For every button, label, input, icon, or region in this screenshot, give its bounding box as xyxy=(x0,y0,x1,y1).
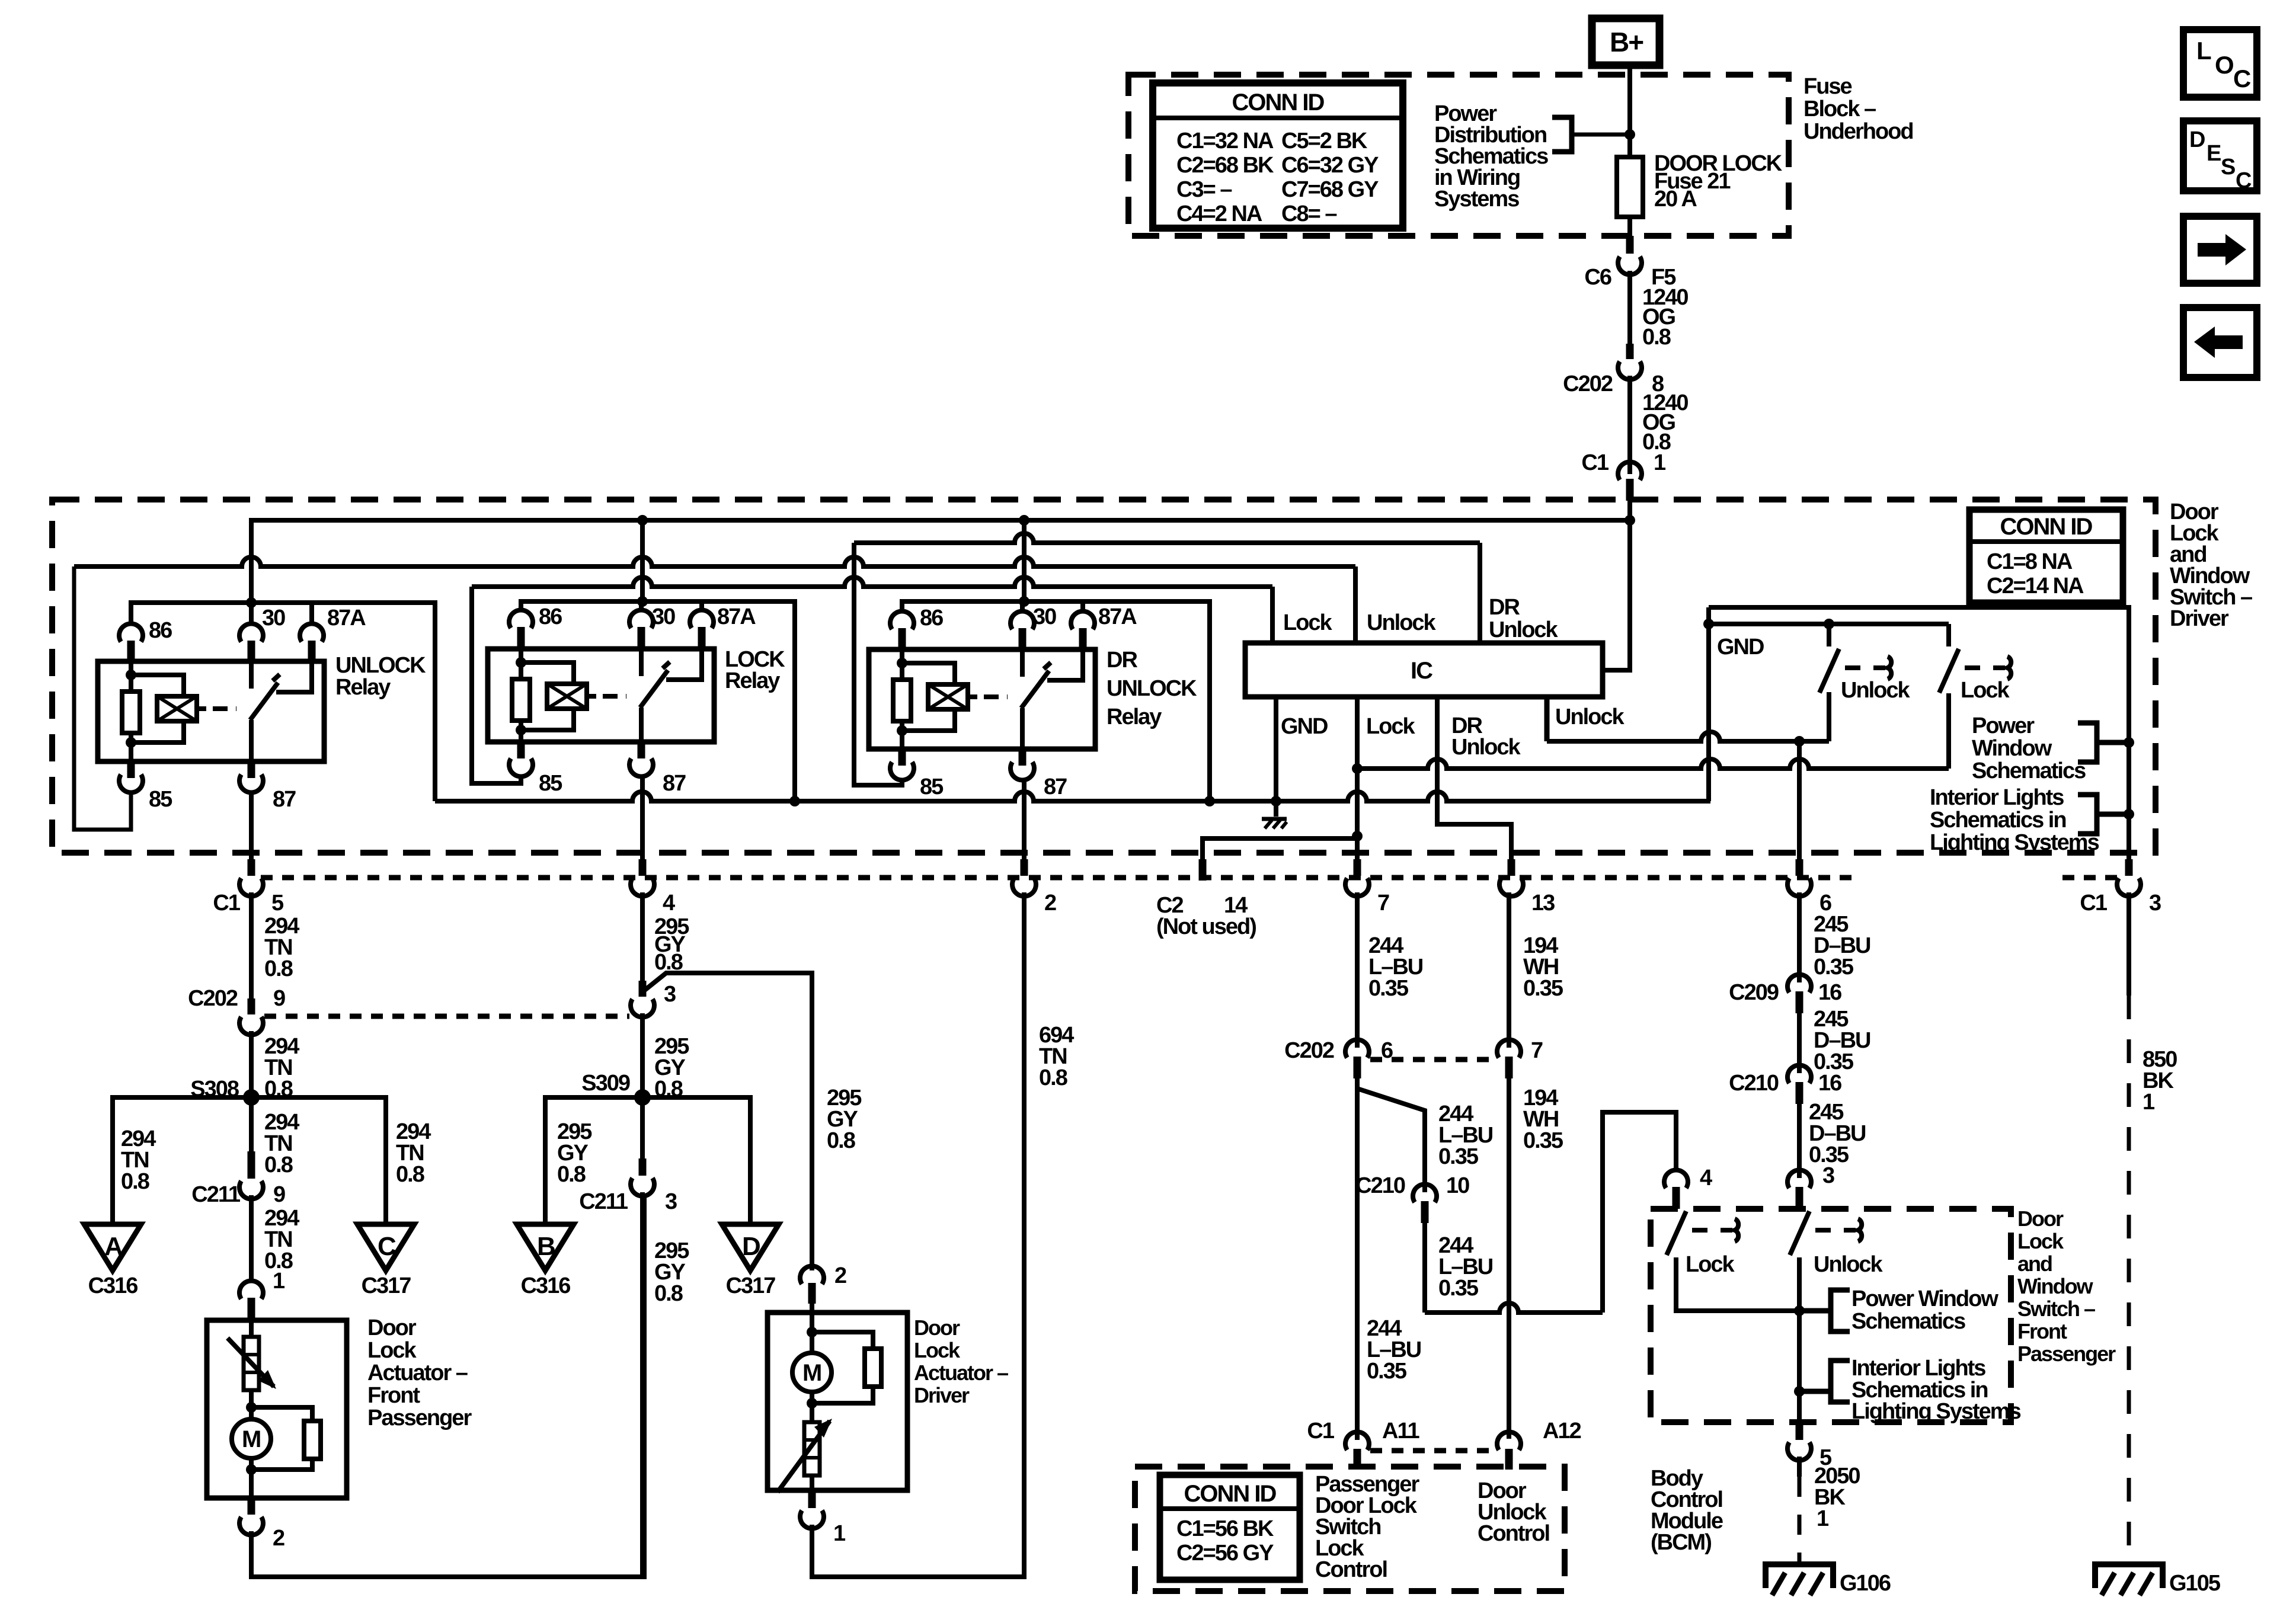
wire unlock switch drop xyxy=(1827,693,1831,741)
svg-text:Window: Window xyxy=(1972,736,2052,761)
battery feed B+ box xyxy=(1592,18,1659,65)
door lock and window switch driver dashed box xyxy=(52,500,2156,853)
svg-text:DR: DR xyxy=(1107,648,1137,673)
actuator junction 2 xyxy=(246,1464,257,1475)
wire S308 to C211 xyxy=(249,1097,254,1151)
svg-text:Driver: Driver xyxy=(914,1383,970,1407)
svg-text:7: 7 xyxy=(1531,1038,1543,1063)
svg-text:G105: G105 xyxy=(2169,1571,2221,1596)
svg-text:0.35: 0.35 xyxy=(1814,955,1854,980)
svg-text:C3= –: C3= – xyxy=(1176,177,1232,202)
svg-text:9: 9 xyxy=(273,1182,285,1207)
bracket interior lights driver xyxy=(2078,795,2097,834)
wire IC gnd pin xyxy=(1274,697,1278,817)
connector BCM A11 xyxy=(1345,1432,1369,1450)
svg-text:and: and xyxy=(2017,1251,2052,1276)
relay UNLOCK pin 30 connector xyxy=(239,623,263,642)
svg-text:C1=56 BK: C1=56 BK xyxy=(1176,1516,1274,1541)
connector passenger switch pin 4 xyxy=(1664,1170,1688,1188)
connector actuator passenger pin 2 xyxy=(248,1498,255,1515)
svg-text:5: 5 xyxy=(271,891,284,916)
actuator variable resistor arrow xyxy=(778,1421,830,1492)
svg-text:O: O xyxy=(2215,51,2233,79)
connector C202 pin 6 xyxy=(1345,1039,1369,1058)
svg-text:Power Window: Power Window xyxy=(1851,1286,1998,1311)
wire gnd vertical xyxy=(1706,607,1711,801)
svg-text:Lock: Lock xyxy=(1366,714,1416,739)
svg-text:A12: A12 xyxy=(1543,1419,1581,1443)
wire 245 D-BU pin 6 down xyxy=(1797,892,1802,982)
svg-text:3: 3 xyxy=(1822,1163,1834,1188)
svg-text:1: 1 xyxy=(273,1269,285,1294)
svg-text:M: M xyxy=(802,1360,821,1386)
wire 294 TN pin5 to C202 xyxy=(249,892,254,998)
svg-text:C7=68 GY: C7=68 GY xyxy=(1281,177,1379,202)
relay LOCK 87A internal contact xyxy=(666,649,702,680)
svg-text:0.35: 0.35 xyxy=(1368,976,1409,1001)
node dr unlock relay run junction xyxy=(1019,596,1029,607)
connector C202 pin 7 xyxy=(1497,1039,1521,1058)
svg-text:C317: C317 xyxy=(726,1273,776,1298)
connector passenger switch pin 3 xyxy=(1787,1170,1811,1188)
node bus junction C1 feed xyxy=(1625,515,1635,526)
svg-text:Relay: Relay xyxy=(335,675,391,700)
svg-text:Unlock: Unlock xyxy=(1367,610,1437,635)
actuator box xyxy=(768,1313,907,1490)
svg-text:C: C xyxy=(2233,65,2251,92)
connector C1 pin 13 xyxy=(1508,859,1515,876)
nav box LOC xyxy=(2183,30,2257,97)
connector C1 pin 7 xyxy=(1354,859,1361,876)
wire 295 GY down to passenger actuator xyxy=(640,1192,645,1577)
node D off-page triangle C317 xyxy=(722,1224,779,1270)
actuator variable resistor xyxy=(810,1392,814,1422)
node unlock relay 30 junction xyxy=(246,597,257,608)
svg-text:Window: Window xyxy=(2017,1274,2094,1298)
node ground bus IC gnd xyxy=(1271,796,1281,806)
svg-text:C202: C202 xyxy=(1284,1038,1334,1063)
door lock and window switch front passenger dashed box xyxy=(1651,1209,2011,1422)
fuse block underhood dashed box xyxy=(1128,75,1789,236)
actuator motor xyxy=(249,1407,254,1419)
wire IC lock output to pin 7 xyxy=(1355,697,1360,859)
svg-text:0.35: 0.35 xyxy=(1438,1276,1479,1301)
wire unlock relay 85 to IC unlock xyxy=(74,566,131,830)
svg-text:Driver: Driver xyxy=(2170,606,2229,631)
wire S308 branch to A xyxy=(113,1097,251,1224)
wire actuator passenger pin 2 to 295 GY xyxy=(251,1193,644,1577)
relay UNLOCK 87A internal contact xyxy=(276,661,312,692)
wire S308 branch to C xyxy=(251,1097,386,1224)
node unlock output junction xyxy=(1794,736,1805,747)
svg-text:30: 30 xyxy=(1033,604,1056,629)
relay DR UNLOCK switch to pin 87 xyxy=(1020,708,1025,749)
relay UNLOCK box xyxy=(98,661,324,761)
node B off-page triangle C316 xyxy=(517,1224,574,1270)
actuator driver xyxy=(810,1304,814,1313)
svg-text:Lock: Lock xyxy=(2017,1229,2064,1253)
connector actuator driver pin 1 xyxy=(808,1490,816,1508)
actuator variable resistor xyxy=(249,1320,254,1337)
connector passenger switch pin 5 xyxy=(1796,1422,1803,1440)
svg-text:UNLOCK: UNLOCK xyxy=(1107,676,1197,701)
relay LOCK coil xyxy=(521,662,574,684)
relay DR UNLOCK coil-feed run xyxy=(902,601,1210,801)
svg-text:Block –: Block – xyxy=(1803,97,1876,121)
node ground bus lock 87A xyxy=(789,796,800,806)
relay DR UNLOCK pin 85 connector xyxy=(898,749,906,766)
nav box DESC xyxy=(2183,121,2257,191)
svg-text:A11: A11 xyxy=(1382,1419,1419,1443)
connector C202 pin 9 xyxy=(248,998,255,1014)
svg-text:Systems: Systems xyxy=(1434,187,1519,212)
svg-text:Lighting Systems: Lighting Systems xyxy=(1851,1399,2021,1424)
relay UNLOCK armature linkage dashes xyxy=(213,706,228,711)
CONN ID table driver switch xyxy=(1969,510,2123,603)
svg-text:Lock: Lock xyxy=(914,1338,961,1362)
relay DR UNLOCK armature linkage dashes xyxy=(984,694,999,699)
svg-text:E: E xyxy=(2207,141,2221,166)
wire 194 WH pin 13 down xyxy=(1507,892,1511,1048)
svg-text:Lock: Lock xyxy=(1686,1252,1735,1277)
svg-text:C2=56 GY: C2=56 GY xyxy=(1176,1541,1274,1566)
svg-text:16: 16 xyxy=(1818,980,1841,1005)
relay LOCK coil-feed run xyxy=(521,601,795,801)
svg-text:0.8: 0.8 xyxy=(1642,325,1671,350)
svg-text:C317: C317 xyxy=(362,1273,411,1298)
connector BCM A12 xyxy=(1497,1432,1521,1450)
connector C211 pin 3 xyxy=(639,1158,647,1176)
svg-text:C1=8 NA: C1=8 NA xyxy=(1987,549,2073,574)
wire unlock switch to output xyxy=(1827,692,1831,741)
CONN ID table fuse block xyxy=(1153,83,1403,228)
relay UNLOCK switch to pin 87 xyxy=(249,720,254,761)
svg-text:0.8: 0.8 xyxy=(264,956,293,981)
relay DR UNLOCK 30 stub xyxy=(1020,601,1025,613)
wire lock output to driver lock switch xyxy=(1357,759,1949,769)
relay DR UNLOCK 87A internal contact xyxy=(1047,649,1083,680)
relay UNLOCK switch contact 30 xyxy=(249,661,254,689)
IC box xyxy=(1245,643,1603,697)
svg-text:C1: C1 xyxy=(1307,1419,1334,1443)
relay UNLOCK pin 85 connector xyxy=(127,761,135,778)
svg-text:85: 85 xyxy=(149,787,172,812)
wire 850 BK dashed xyxy=(2127,996,2131,1564)
svg-text:C316: C316 xyxy=(521,1273,571,1298)
svg-text:Lighting Systems: Lighting Systems xyxy=(1930,830,2099,855)
bracket interior lights passenger xyxy=(1831,1361,1850,1402)
relay UNLOCK pin 87 connector xyxy=(248,761,255,778)
node lock output junction 1 xyxy=(1352,763,1363,774)
relay DR UNLOCK box xyxy=(869,649,1095,749)
connector C202 pin 3 xyxy=(639,981,647,997)
node passenger interior lights junction xyxy=(1794,1386,1805,1397)
svg-text:0.35: 0.35 xyxy=(1438,1144,1479,1169)
splice S309 xyxy=(634,1089,651,1106)
relay UNLOCK coil-feed run xyxy=(131,603,435,801)
svg-text:Passenger: Passenger xyxy=(2017,1342,2116,1366)
svg-text:DR: DR xyxy=(1489,595,1520,620)
actuator motor xyxy=(810,1332,814,1353)
svg-text:0.8: 0.8 xyxy=(264,1153,293,1177)
svg-text:87A: 87A xyxy=(327,606,366,630)
node unlock switch feed xyxy=(1824,619,1834,629)
ground G106 xyxy=(1766,1564,1833,1588)
node interior lights junction xyxy=(2124,809,2134,820)
svg-text:Actuator –: Actuator – xyxy=(367,1361,468,1385)
actuator junction xyxy=(249,1390,254,1407)
relay DR UNLOCK coil xyxy=(902,663,955,684)
svg-text:Fuse: Fuse xyxy=(1803,74,1852,99)
svg-text:C1: C1 xyxy=(1581,450,1609,475)
svg-text:Unlock: Unlock xyxy=(1841,678,1911,703)
node C off-page triangle C317 xyxy=(357,1224,414,1270)
svg-text:C316: C316 xyxy=(88,1273,138,1298)
ground G105 xyxy=(2095,1564,2163,1588)
svg-text:G106: G106 xyxy=(1840,1571,1891,1596)
wire C2 pin 14 not used xyxy=(1203,838,1357,859)
wire into switch xyxy=(1627,501,1632,519)
power distribution bracket xyxy=(1552,117,1572,152)
svg-text:C6=32 GY: C6=32 GY xyxy=(1281,153,1379,178)
node lock relay run junction xyxy=(637,596,648,607)
wire 244 C210 to passenger lock switch xyxy=(1422,1223,1427,1313)
nav box previous arrow xyxy=(2183,308,2257,377)
svg-text:85: 85 xyxy=(539,771,562,796)
relay LOCK pin 86 connector xyxy=(509,610,533,628)
svg-text:87: 87 xyxy=(273,787,296,812)
node power window junction xyxy=(2124,737,2134,748)
connector actuator driver pin 2 xyxy=(800,1266,824,1284)
svg-text:0.8: 0.8 xyxy=(654,1281,683,1306)
actuator shunt resistor xyxy=(251,1407,312,1421)
wire driver switch gnd top xyxy=(1709,607,2129,859)
switch passenger lock xyxy=(1667,1211,1686,1255)
wire 295 GY branch to driver actuator xyxy=(642,973,812,1270)
actuator variable resistor arrow xyxy=(228,1338,274,1387)
svg-text:Unlock: Unlock xyxy=(1489,617,1559,642)
svg-text:20 A: 20 A xyxy=(1654,187,1697,212)
wire dr unlock relay 85 to IC dr unlock xyxy=(854,543,902,785)
svg-text:Door: Door xyxy=(2017,1206,2064,1231)
svg-text:S309: S309 xyxy=(581,1071,630,1096)
svg-text:B+: B+ xyxy=(1610,27,1643,57)
svg-text:Door: Door xyxy=(367,1315,417,1340)
node A off-page triangle C316 xyxy=(84,1224,141,1270)
wire 2050 BK to G106 xyxy=(1797,1457,1802,1477)
svg-text:C209: C209 xyxy=(1729,980,1779,1005)
wire lock relay 30 drop xyxy=(640,520,645,601)
svg-text:C: C xyxy=(2236,168,2252,193)
wire gnd to switches xyxy=(1709,622,1949,626)
svg-text:0.8: 0.8 xyxy=(827,1128,855,1153)
svg-text:Relay: Relay xyxy=(725,668,780,693)
wire passenger unlock switch output xyxy=(1797,1257,1802,1311)
bracket power window schematics passenger xyxy=(1831,1290,1850,1331)
wire passenger switch common down xyxy=(1797,1311,1802,1422)
svg-text:D: D xyxy=(2189,127,2205,152)
relay LOCK switch contact 30 xyxy=(639,649,644,676)
svg-text:Passenger: Passenger xyxy=(367,1406,472,1430)
wire 244 down to A11 xyxy=(1355,1078,1360,1440)
wire ground bus xyxy=(435,792,1710,801)
wire S309 to C211 pin 3 xyxy=(640,1097,645,1158)
svg-text:0.8: 0.8 xyxy=(1039,1065,1067,1090)
actuator shunt resistor xyxy=(812,1332,873,1349)
svg-text:Interior Lights: Interior Lights xyxy=(1930,785,2064,810)
svg-text:16: 16 xyxy=(1818,1071,1841,1096)
wire 1240 OG segment 2 xyxy=(1627,376,1632,474)
svg-text:86: 86 xyxy=(539,604,562,629)
relay UNLOCK coil resistor xyxy=(129,661,133,675)
relay LOCK switch blade xyxy=(640,670,668,708)
wire 694 TN pin2 to actuator driver xyxy=(812,892,1024,1577)
relay UNLOCK 30 stub xyxy=(249,603,254,625)
svg-text:C5=2 BK: C5=2 BK xyxy=(1281,129,1368,153)
relay DR UNLOCK 87A stub xyxy=(1080,601,1085,613)
relay LOCK 30 stub xyxy=(639,601,644,612)
svg-text:IC: IC xyxy=(1411,658,1432,684)
svg-text:30: 30 xyxy=(652,604,675,629)
actuator junction 2 xyxy=(807,1398,817,1409)
relay LOCK pin 85 connector xyxy=(517,742,525,758)
wire 295 GY C202 to S309 xyxy=(640,1013,645,1096)
svg-text:1: 1 xyxy=(833,1521,846,1546)
svg-text:C210: C210 xyxy=(1355,1173,1405,1198)
svg-text:C1: C1 xyxy=(213,891,240,916)
svg-text:2: 2 xyxy=(1044,891,1056,916)
svg-text:C1: C1 xyxy=(2080,891,2107,916)
wire 245 D-BU C210 to passenger switch xyxy=(1797,1104,1802,1178)
svg-text:Actuator –: Actuator – xyxy=(914,1361,1008,1385)
svg-text:C2=14 NA: C2=14 NA xyxy=(1987,574,2084,598)
svg-text:A: A xyxy=(104,1232,123,1261)
relay UNLOCK pin 87A connector xyxy=(300,623,324,642)
svg-text:GND: GND xyxy=(1281,714,1328,739)
switch driver lock xyxy=(1946,624,1951,646)
node lock output junction 2 xyxy=(1352,831,1363,841)
svg-text:86: 86 xyxy=(920,606,943,630)
svg-text:9: 9 xyxy=(273,986,285,1011)
actuator junction xyxy=(810,1313,814,1332)
svg-text:L: L xyxy=(2196,37,2211,65)
relay LOCK switch to pin 87 xyxy=(639,708,644,742)
actuator box xyxy=(207,1320,347,1498)
svg-text:0.35: 0.35 xyxy=(1523,976,1563,1001)
connector C1 pin 5 xyxy=(249,791,254,859)
relay DR UNLOCK pin 87A connector xyxy=(1071,611,1095,629)
svg-text:Interior Lights: Interior Lights xyxy=(1851,1356,1985,1381)
connector C209 pin 16 xyxy=(1787,974,1811,993)
svg-text:Lock: Lock xyxy=(1961,678,2010,703)
connector C210 pin 10 xyxy=(1413,1184,1437,1202)
svg-text:Control: Control xyxy=(1478,1521,1549,1546)
wire C211 to actuator xyxy=(249,1195,254,1281)
relay DR UNLOCK switch blade xyxy=(1021,671,1049,708)
svg-text:Unlock: Unlock xyxy=(1555,705,1625,729)
svg-text:Unlock: Unlock xyxy=(1451,735,1521,760)
svg-text:Relay: Relay xyxy=(1107,705,1162,729)
svg-text:4: 4 xyxy=(1700,1166,1712,1190)
relay LOCK coil resistor xyxy=(519,649,523,662)
svg-text:30: 30 xyxy=(262,606,285,630)
relay UNLOCK pin 86 connector xyxy=(119,623,143,642)
nav box next arrow xyxy=(2183,216,2257,283)
relay LOCK armature linkage dashes xyxy=(603,694,618,699)
svg-text:7: 7 xyxy=(1377,891,1389,916)
wire bus to IC right side xyxy=(1603,520,1630,670)
svg-text:C: C xyxy=(378,1232,396,1261)
connector C1 pin 4 xyxy=(640,775,645,859)
svg-text:C2=68 BK: C2=68 BK xyxy=(1176,153,1274,178)
svg-text:Front: Front xyxy=(2017,1319,2067,1343)
wire 295 GY pin4 to C202 xyxy=(640,892,645,981)
svg-text:CONN ID: CONN ID xyxy=(1184,1481,1277,1507)
splice S308 xyxy=(243,1089,260,1106)
svg-text:1: 1 xyxy=(2142,1090,2155,1115)
svg-text:B: B xyxy=(537,1232,555,1261)
svg-text:Unlock: Unlock xyxy=(1814,1252,1884,1277)
svg-text:(BCM): (BCM) xyxy=(1651,1530,1711,1555)
wire passenger lock switch output xyxy=(1676,1257,1799,1311)
svg-text:87A: 87A xyxy=(1098,604,1137,629)
svg-text:S: S xyxy=(2221,155,2235,180)
svg-text:Control: Control xyxy=(1315,1557,1387,1582)
CONN ID table BCM xyxy=(1160,1475,1300,1580)
svg-text:Door: Door xyxy=(914,1315,960,1340)
svg-text:13: 13 xyxy=(1531,891,1555,916)
svg-text:10: 10 xyxy=(1446,1173,1469,1198)
svg-text:2: 2 xyxy=(834,1263,846,1288)
connector C202 dotted line left xyxy=(264,1014,629,1019)
relay DR UNLOCK pin 30 connector xyxy=(1011,611,1034,629)
relay LOCK 87A stub xyxy=(699,601,704,612)
svg-text:3: 3 xyxy=(2149,891,2161,916)
node fuse feed junction xyxy=(1625,129,1635,140)
node passenger switch common xyxy=(1794,1305,1805,1316)
svg-text:D: D xyxy=(742,1232,760,1261)
svg-text:85: 85 xyxy=(920,774,944,799)
svg-text:Underhood: Underhood xyxy=(1803,119,1913,144)
svg-text:GND: GND xyxy=(1717,635,1764,660)
wire 194 WH C202 to A12 xyxy=(1507,1078,1511,1439)
connector C210 pin 16 xyxy=(1787,1065,1811,1083)
connector BCM dotted line xyxy=(1370,1448,1494,1454)
wire 244 diagonal to C210 xyxy=(1357,1078,1425,1192)
svg-text:C202: C202 xyxy=(188,986,238,1011)
wire 850 BK from C1 pin 3 xyxy=(2126,892,2131,996)
svg-text:Power: Power xyxy=(1972,713,2035,738)
node gnd switch junction xyxy=(1703,619,1714,629)
relay DR UNLOCK coil resistor xyxy=(900,649,904,663)
svg-text:0.8: 0.8 xyxy=(396,1162,424,1187)
relay UNLOCK 87A stub xyxy=(309,603,314,625)
wire 244 L-BU pin 7 down xyxy=(1355,892,1360,1048)
relay LOCK pin 87 connector xyxy=(638,742,645,758)
svg-text:Lock: Lock xyxy=(1283,610,1333,635)
wire lock relay 85 to IC lock xyxy=(472,587,521,783)
wire 245 D-BU C209 to C210 xyxy=(1797,1013,1802,1073)
node bus junction dr unlock relay xyxy=(1019,515,1029,526)
wire 294 TN C202 to S308 xyxy=(249,1031,254,1096)
wire B+ to fuse xyxy=(1627,65,1632,157)
wire B+ bus inside switch xyxy=(251,520,1630,622)
connector C1 pin 3 xyxy=(2125,859,2133,876)
svg-text:0.8: 0.8 xyxy=(557,1162,586,1187)
svg-text:86: 86 xyxy=(149,618,172,643)
svg-text:87: 87 xyxy=(663,771,686,796)
connector C6 F5 xyxy=(1626,236,1634,254)
